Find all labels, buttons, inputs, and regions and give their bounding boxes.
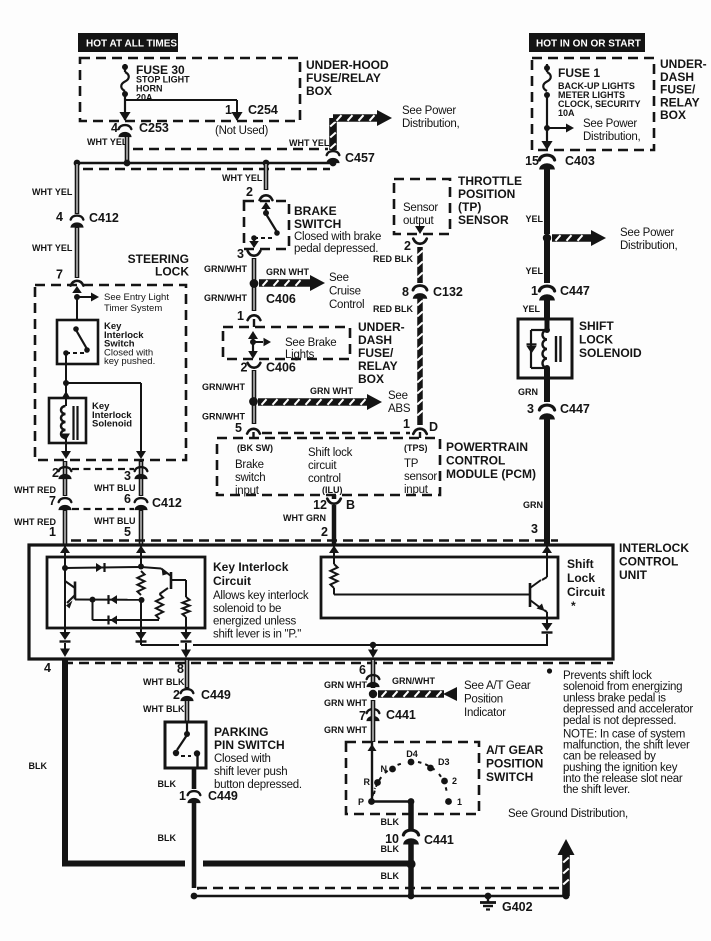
wire to interlock unit xyxy=(544,418,550,544)
label GRN WHT abs xyxy=(310,386,353,396)
svg-text:Indicator: Indicator xyxy=(464,707,506,719)
solenoid core bars xyxy=(74,406,78,440)
transistor Q2 xyxy=(141,567,171,589)
arrow unit entry pin3 xyxy=(542,546,552,554)
svg-text:output: output xyxy=(403,215,435,227)
wire r3 down xyxy=(185,617,187,632)
pin 2 brake xyxy=(246,185,253,199)
label G402 xyxy=(502,900,533,914)
arrow brakelights stub xyxy=(253,338,271,346)
node collector row xyxy=(90,597,96,603)
label BLK c441b 2 xyxy=(381,871,400,881)
connector brake top xyxy=(260,195,273,200)
svg-text:BLK: BLK xyxy=(29,761,48,771)
key interlock solenoid coil xyxy=(61,406,66,438)
wire atgear out down xyxy=(408,802,414,831)
hatched ground arrow xyxy=(558,839,575,899)
svg-text:C132: C132 xyxy=(433,285,463,299)
svg-text:depressed and accelerator: depressed and accelerator xyxy=(563,704,693,716)
svg-text:See Power: See Power xyxy=(402,105,456,117)
wire r4 to q3 xyxy=(334,588,529,595)
svg-text:sensor: sensor xyxy=(404,471,437,483)
svg-text:RELAY: RELAY xyxy=(358,359,398,373)
node cruise branch xyxy=(250,279,259,288)
connector right a xyxy=(135,467,148,479)
wire pin3 right xyxy=(139,461,144,496)
label Sensor output xyxy=(403,202,438,227)
svg-text:A/T GEAR: A/T GEAR xyxy=(486,743,544,757)
svg-text:Closed with: Closed with xyxy=(214,753,271,765)
label UNDER-HOOD FUSE/RELAY BOX xyxy=(306,58,389,98)
label BLK atgear xyxy=(381,817,400,827)
svg-text:GRN WHT: GRN WHT xyxy=(324,725,367,735)
svg-text:6: 6 xyxy=(359,663,366,677)
pin 2 unit xyxy=(321,525,328,539)
label C412 upper xyxy=(89,211,119,225)
arrow C403 exit xyxy=(541,141,552,150)
svg-text:BLK: BLK xyxy=(158,779,177,789)
svg-text:GRN WHT: GRN WHT xyxy=(266,267,309,277)
wire tp to C132 xyxy=(417,247,423,283)
wire rail 644 left xyxy=(141,643,179,645)
shift lock circuit box xyxy=(321,557,558,618)
q2 collector to r3 xyxy=(171,580,186,597)
svg-text:WHT YEL: WHT YEL xyxy=(32,187,73,197)
wire pin5 right xyxy=(139,510,144,545)
label BLK left xyxy=(29,761,48,771)
svg-text:(TPS): (TPS) xyxy=(404,443,428,453)
contact 2 xyxy=(441,776,457,786)
svg-text:GRN/WHT: GRN/WHT xyxy=(204,293,247,303)
svg-text:B: B xyxy=(346,498,355,512)
wire pin5 into circuit xyxy=(140,545,142,567)
parking switch contacts xyxy=(173,722,200,757)
wire d3 row xyxy=(93,619,151,621)
svg-text:GRN/WHT: GRN/WHT xyxy=(392,676,435,686)
wire q3 emitter down xyxy=(544,610,547,623)
svg-text:energized unless: energized unless xyxy=(213,616,296,628)
shift lock solenoid box xyxy=(518,319,572,378)
label WHT YEL xyxy=(87,137,128,147)
hatched arrow to power distribution xyxy=(333,110,392,126)
label GRN 2 xyxy=(523,500,543,510)
svg-text:6: 6 xyxy=(124,492,131,506)
label BLK 2 xyxy=(158,833,177,843)
svg-text:C447: C447 xyxy=(560,402,590,416)
svg-text:4: 4 xyxy=(56,210,63,224)
node power dist branch xyxy=(543,234,551,242)
label Shift lock circuit control xyxy=(308,447,353,485)
node rail c441 xyxy=(408,893,415,900)
svg-text:2: 2 xyxy=(321,525,328,539)
node bottom of fuse 30 xyxy=(122,91,128,97)
wire pin1 into circuit xyxy=(64,545,66,582)
wire branch to C254 xyxy=(125,100,237,120)
svg-text:2: 2 xyxy=(173,688,180,702)
pin 1 c449b xyxy=(179,789,186,803)
wire into key interlock switch xyxy=(76,297,78,321)
contact R xyxy=(364,777,381,787)
under-hood fuse/relay box (dashed) xyxy=(80,58,300,121)
wire atgear down to P xyxy=(371,742,373,801)
pin 3 xyxy=(124,469,131,483)
wire switch to node xyxy=(65,353,67,383)
pin 10 c441 xyxy=(385,832,399,846)
svg-text:WHT GRN: WHT GRN xyxy=(283,513,326,523)
pin 2 xyxy=(52,466,59,480)
connector C406b xyxy=(248,363,261,368)
wire d7 to rail xyxy=(546,634,548,645)
svg-text:GRN: GRN xyxy=(518,387,538,397)
label YEL 3 xyxy=(522,304,540,314)
label FUSE 1 xyxy=(558,66,600,80)
label HOT IN ON OR START xyxy=(529,33,645,52)
resistor R1 xyxy=(137,571,144,595)
svg-text:SWITCH: SWITCH xyxy=(486,770,533,784)
pin 4 below xyxy=(44,661,51,675)
note prevents shift lock xyxy=(563,670,693,727)
node atgear out xyxy=(408,798,415,805)
svg-text:CONTROL: CONTROL xyxy=(446,454,505,468)
arrow C253 exit xyxy=(119,112,130,121)
svg-text:C457: C457 xyxy=(345,151,375,165)
wire C253 to bus xyxy=(125,136,130,163)
pin 1 pcm xyxy=(403,417,410,431)
pin 1 C254 xyxy=(225,103,278,117)
svg-text:C441: C441 xyxy=(424,833,454,847)
svg-text:Closed with brake: Closed with brake xyxy=(294,231,381,243)
svg-text:pedal depressed.: pedal depressed. xyxy=(294,243,378,255)
arrow pin6 exit xyxy=(368,645,378,658)
wire bus down left xyxy=(75,163,80,214)
svg-text:BRAKE: BRAKE xyxy=(294,204,337,218)
label GRN.WHT 2 xyxy=(204,293,247,303)
label (BK SW) xyxy=(237,443,273,453)
label allows key interlock xyxy=(213,590,309,640)
svg-text:GRN WHT: GRN WHT xyxy=(310,386,353,396)
label C253 xyxy=(139,121,169,135)
svg-text:4: 4 xyxy=(111,121,118,135)
ground solid rail xyxy=(194,895,566,897)
svg-text:WHT YEL: WHT YEL xyxy=(289,138,330,148)
svg-text:See Power: See Power xyxy=(620,227,674,239)
label YEL 2 xyxy=(525,266,543,276)
label Shift Lock Circuit xyxy=(567,557,605,613)
pin 1 C447 xyxy=(531,284,538,298)
wire parking out xyxy=(196,755,198,768)
label THROTTLE POSITION (TP) SENSOR xyxy=(458,174,522,227)
label GRN WHT p6b xyxy=(324,698,367,708)
powertrain control module box (dashed) xyxy=(217,438,440,495)
connector pcm D xyxy=(413,429,426,434)
diode D2 xyxy=(109,595,118,604)
label See Power Distribution (fusebox) xyxy=(583,118,641,143)
wire pin4 exit xyxy=(60,643,70,657)
svg-text:Shift lock: Shift lock xyxy=(308,447,353,459)
svg-text:(ILU): (ILU) xyxy=(322,485,343,495)
svg-text:See Ground Distribution,: See Ground Distribution, xyxy=(508,808,628,820)
svg-text:shift lever is in "P.": shift lever is in "P." xyxy=(213,628,301,640)
wire pin4 BLK xyxy=(62,659,68,861)
svg-text:Position: Position xyxy=(464,694,503,706)
svg-text:7: 7 xyxy=(359,709,366,723)
svg-text:Sensor: Sensor xyxy=(403,202,438,214)
node bus C253 junction xyxy=(124,160,131,167)
svg-text:PIN SWITCH: PIN SWITCH xyxy=(214,738,285,752)
key interlock circuit box xyxy=(47,557,205,628)
svg-text:MODULE (PCM): MODULE (PCM) xyxy=(446,467,536,481)
label GRN 1 xyxy=(518,387,538,397)
label WHT YEL left1 xyxy=(32,187,73,197)
svg-text:RED BLK: RED BLK xyxy=(373,254,413,264)
label See ABS xyxy=(388,390,411,415)
wire to C447 xyxy=(544,238,550,283)
wire to brake lights box xyxy=(253,319,255,327)
wire fuse30 feed xyxy=(124,64,126,72)
svg-text:LOCK: LOCK xyxy=(579,333,613,347)
wire pin1 left xyxy=(63,510,68,545)
connector C403 xyxy=(539,155,554,169)
svg-text:See Brake: See Brake xyxy=(285,337,336,349)
label C441b xyxy=(424,833,454,847)
svg-text:Prevents shift lock: Prevents shift lock xyxy=(563,670,652,682)
svg-text:C406: C406 xyxy=(266,361,296,375)
label B xyxy=(346,498,355,512)
svg-text:Circuit: Circuit xyxy=(567,585,605,599)
label GRN/WHT cruise xyxy=(266,267,309,277)
svg-text:TP: TP xyxy=(404,458,419,470)
wire solenoid to box edge xyxy=(65,438,67,452)
diode D6 pin8 xyxy=(181,632,192,642)
svg-text:GRN/WHT: GRN/WHT xyxy=(202,382,245,392)
svg-text:POSITION: POSITION xyxy=(486,757,543,771)
harness dashed pins 7-6 xyxy=(72,508,134,510)
svg-text:SWITCH: SWITCH xyxy=(294,217,341,231)
svg-text:THROTTLE: THROTTLE xyxy=(458,174,522,188)
svg-text:Lights: Lights xyxy=(285,349,315,361)
svg-text:BOX: BOX xyxy=(358,372,384,386)
harness dashed above unit xyxy=(71,539,558,542)
svg-text:See: See xyxy=(329,272,349,284)
label C132 xyxy=(433,285,463,299)
svg-text:FUSE/RELAY: FUSE/RELAY xyxy=(306,71,381,85)
svg-text:Shift: Shift xyxy=(567,557,594,571)
label Key Interlock Circuit xyxy=(213,560,289,588)
resistor R3 xyxy=(182,597,189,617)
label See Cruise Control xyxy=(329,272,364,311)
label BRAKE SWITCH xyxy=(294,204,341,231)
wire c449b down xyxy=(194,802,199,889)
svg-text:Distribution,: Distribution, xyxy=(583,131,641,143)
diode D4 pin4 xyxy=(60,632,71,642)
see brake lights box (dashed) xyxy=(223,327,350,359)
connector pcm bksw xyxy=(247,429,260,434)
svg-text:GRN: GRN xyxy=(523,500,543,510)
wire P to out xyxy=(372,800,412,802)
wire bus WHT YEL xyxy=(77,162,333,165)
connector left a xyxy=(59,467,72,479)
svg-text:HOT IN ON OR START: HOT IN ON OR START xyxy=(536,39,641,50)
wire c441b down xyxy=(408,842,414,895)
svg-text:solenoid to be: solenoid to be xyxy=(213,603,281,615)
label FUSE 30 xyxy=(136,63,185,77)
label GRN'WHT 4 xyxy=(202,412,245,422)
label C447 upper xyxy=(560,284,590,298)
connector C457 xyxy=(327,151,340,163)
svg-text:DASH: DASH xyxy=(358,333,392,347)
arrow unit entry pin5 xyxy=(136,546,146,554)
svg-text:15: 15 xyxy=(525,154,539,168)
svg-text:WHT BLK: WHT BLK xyxy=(143,677,185,687)
transistor Q3 xyxy=(530,580,545,611)
node rail g402 xyxy=(485,893,492,900)
svg-text:12: 12 xyxy=(313,498,327,512)
arrow brake entry xyxy=(261,202,271,213)
arrow solenoid exit xyxy=(61,434,70,442)
label BLK c449b xyxy=(158,779,177,789)
harness dashed below unit xyxy=(63,662,613,664)
label STEERING LOCK xyxy=(128,252,190,279)
svg-text:Key Interlock: Key Interlock xyxy=(213,560,289,574)
svg-text:(BK SW): (BK SW) xyxy=(237,443,273,453)
svg-text:POWERTRAIN: POWERTRAIN xyxy=(446,440,528,454)
wire pin2 left xyxy=(63,461,68,496)
pin 5b xyxy=(124,525,131,539)
label Key Interlock Solenoid xyxy=(92,401,132,430)
wire pin8 exit xyxy=(181,643,191,658)
svg-text:7: 7 xyxy=(49,494,56,508)
svg-text:D3: D3 xyxy=(438,757,450,767)
label C441a xyxy=(386,708,416,722)
brake switch contacts xyxy=(251,210,280,241)
svg-text:5: 5 xyxy=(124,525,131,539)
connector C447 upper xyxy=(539,286,554,300)
pin 8 below xyxy=(177,662,184,676)
svg-text:WHT YEL: WHT YEL xyxy=(222,173,263,183)
label C449b xyxy=(208,789,238,803)
svg-text:BLK: BLK xyxy=(381,844,400,854)
arrow see power (fusebox) xyxy=(547,124,574,133)
svg-text:unless brake pedal is: unless brake pedal is xyxy=(563,692,666,704)
svg-text:UNIT: UNIT xyxy=(619,568,648,582)
svg-text:2: 2 xyxy=(52,466,59,480)
svg-text:GRN/WHT: GRN/WHT xyxy=(204,264,247,274)
svg-text:See A/T Gear: See A/T Gear xyxy=(464,680,531,692)
svg-text:input: input xyxy=(235,485,260,497)
label See Power Distribution (left) xyxy=(402,105,460,130)
node bus left xyxy=(74,160,81,167)
svg-text:See Entry Light: See Entry Light xyxy=(104,292,169,303)
note bullet xyxy=(547,668,552,673)
node top of fuse 1 xyxy=(544,65,550,71)
label See Entry Light Timer System xyxy=(104,292,169,314)
wire C447 to solenoid xyxy=(544,299,550,319)
label WHT BLK 2 xyxy=(143,704,185,714)
arrow C254 exit xyxy=(231,112,242,121)
label UNDER-DASH FUSE/RELAY BOX xyxy=(660,57,707,122)
svg-text:BLK: BLK xyxy=(381,871,400,881)
node pin6 junction xyxy=(370,642,376,648)
label (Not Used) xyxy=(215,125,269,137)
fuse F1 xyxy=(543,72,551,91)
svg-text:4: 4 xyxy=(44,661,51,675)
pin 7 left xyxy=(56,268,63,282)
label WHT YEL right xyxy=(289,138,330,148)
wire to abs node xyxy=(252,370,257,424)
label WHT BLK 1 xyxy=(143,677,185,687)
svg-text:Solenoid: Solenoid xyxy=(92,419,132,430)
arrow entry steering lock xyxy=(71,281,84,293)
svg-text:C253: C253 xyxy=(139,121,169,135)
connector C449 xyxy=(181,689,194,701)
label UNDER-DASH 2 xyxy=(358,320,405,386)
label See Ground Distribution xyxy=(508,808,628,820)
wire to steering lock xyxy=(75,227,80,278)
svg-text:INTERLOCK: INTERLOCK xyxy=(619,541,689,555)
svg-text:(TP): (TP) xyxy=(458,200,481,214)
harness dashed lower xyxy=(83,168,330,170)
node solenoid bottom xyxy=(544,365,550,371)
label fuse30 circuits xyxy=(136,75,190,103)
svg-text:key pushed.: key pushed. xyxy=(104,356,155,367)
label WHT RED 1 xyxy=(14,485,56,495)
svg-text:the shift lever.: the shift lever. xyxy=(563,784,630,796)
svg-text:SENSOR: SENSOR xyxy=(458,213,509,227)
contact D3 xyxy=(427,757,449,771)
pin 4 C253 xyxy=(111,121,118,135)
svg-text:C406: C406 xyxy=(266,292,296,306)
node q1 base feed xyxy=(62,565,68,571)
label C449 xyxy=(201,688,231,702)
wire c441 to atgear xyxy=(371,700,376,742)
label WHT BLU 2 xyxy=(94,516,136,526)
label SHIFT LOCK SOLENOID xyxy=(579,319,642,360)
svg-text:1: 1 xyxy=(531,284,538,298)
svg-text:3: 3 xyxy=(237,247,244,261)
label (TPS) xyxy=(404,443,428,453)
label GRN/WHT arrow xyxy=(392,676,435,686)
wire to cruise node xyxy=(252,258,257,311)
wire pcm D entry xyxy=(419,432,421,438)
node bus brake junction xyxy=(263,160,270,167)
diode D3 xyxy=(109,616,118,625)
svg-text:Timer System: Timer System xyxy=(104,303,162,314)
label brake closed with xyxy=(294,231,381,255)
pin 6 below xyxy=(359,663,366,677)
pin 3 C447 xyxy=(527,402,534,416)
svg-text:SHIFT: SHIFT xyxy=(579,319,614,333)
node atgear branch xyxy=(369,690,377,698)
pin 7b xyxy=(49,494,56,508)
svg-text:WHT BLK: WHT BLK xyxy=(143,704,185,714)
arrow brakelights exit xyxy=(248,351,258,359)
svg-text:C441: C441 xyxy=(386,708,416,722)
svg-text:WHT YEL: WHT YEL xyxy=(87,137,128,147)
node solenoid top xyxy=(544,327,550,333)
diode solenoid xyxy=(527,345,537,354)
svg-text:Allows key interlock: Allows key interlock xyxy=(213,590,309,602)
svg-text:PARKING: PARKING xyxy=(214,725,268,739)
parking pin switch box xyxy=(165,722,206,768)
wire pin8 down xyxy=(185,659,190,688)
connector tp xyxy=(413,239,426,244)
svg-text:*: * xyxy=(571,599,576,613)
svg-text:UNDER-HOOD: UNDER-HOOD xyxy=(306,58,389,72)
label WHT-GRN xyxy=(283,513,326,523)
svg-text:BLK: BLK xyxy=(381,817,400,827)
svg-text:C403: C403 xyxy=(565,154,595,168)
svg-text:G402: G402 xyxy=(502,900,533,914)
